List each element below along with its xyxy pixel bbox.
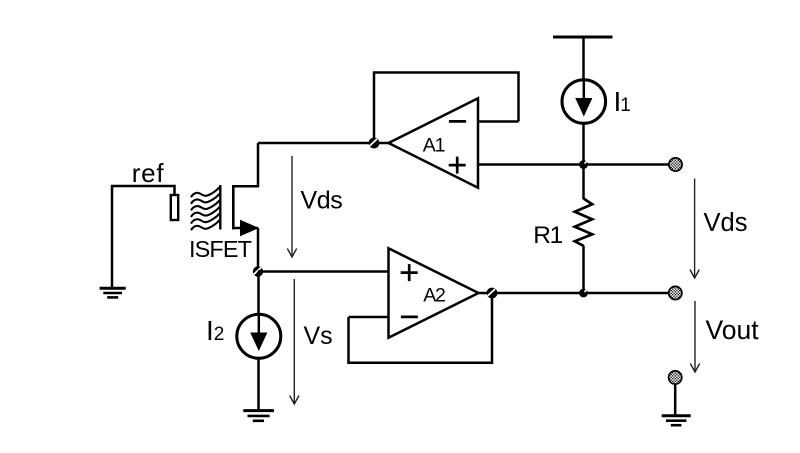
wire R1 to bottom node xyxy=(582,246,585,294)
node A1 output xyxy=(369,138,380,149)
ISFET source wire down xyxy=(257,228,260,272)
svg-text:A2: A2 xyxy=(423,285,445,307)
node bottom rail junction xyxy=(579,289,588,298)
node top rail junction xyxy=(579,160,588,169)
op-amp A2 xyxy=(389,248,479,337)
wire node to R1 xyxy=(582,165,585,200)
terminal Vds+ xyxy=(669,158,682,171)
resistor R1 xyxy=(575,199,592,246)
svg-text:Vds: Vds xyxy=(301,187,343,215)
wire A1 plus input to node xyxy=(478,163,584,166)
wire A1 minus input xyxy=(478,120,519,123)
A1 feedback wire xyxy=(374,73,519,144)
svg-text:ISFET: ISFET xyxy=(189,236,252,262)
A2 feedback wire xyxy=(349,293,493,363)
wire terminal to ground xyxy=(674,384,677,416)
arrow Vs xyxy=(290,279,299,404)
ground (Vout) xyxy=(662,416,691,425)
terminal Vout xyxy=(669,286,682,299)
wire I2 to ground xyxy=(257,358,260,410)
ISFET drain wire down xyxy=(257,143,260,187)
membrane waves xyxy=(191,187,220,230)
svg-text:R1: R1 xyxy=(533,222,562,249)
supply rail xyxy=(553,36,613,39)
current source I1 xyxy=(562,80,606,124)
wire A1 output to ISFET drain xyxy=(258,142,389,145)
wire node to Vds+ terminal xyxy=(584,163,670,166)
current source I2 xyxy=(237,314,281,358)
wire A2 minus input xyxy=(349,316,389,319)
svg-text:ref: ref xyxy=(132,158,165,188)
svg-text:Vout: Vout xyxy=(706,315,760,345)
wire I1 to node xyxy=(582,123,585,164)
svg-text:Vds: Vds xyxy=(704,209,748,237)
wire bottom node to Vout terminal xyxy=(584,292,669,295)
arrow Vds (right) xyxy=(690,179,699,279)
wire A2 output to bottom node xyxy=(479,292,584,295)
svg-text:A1: A1 xyxy=(423,135,445,157)
ground (ref) xyxy=(100,288,126,297)
wire ref electrode xyxy=(112,186,175,288)
ground (I2) xyxy=(243,411,274,421)
ISFET transistor xyxy=(220,185,259,236)
arrow Vout xyxy=(690,301,699,372)
wire source node to I2 xyxy=(257,272,260,315)
arrow Vds (left) xyxy=(287,156,296,257)
reference electrode xyxy=(171,195,178,220)
node ISFET source xyxy=(253,266,263,276)
svg-text:Vs: Vs xyxy=(304,322,333,350)
wire source node to A2 plus input xyxy=(258,270,389,273)
wire supply to I1 xyxy=(582,37,585,80)
node A2 output xyxy=(487,288,498,299)
op-amp A1 (mirrored, output left) xyxy=(389,98,479,187)
terminal ground xyxy=(669,371,682,384)
